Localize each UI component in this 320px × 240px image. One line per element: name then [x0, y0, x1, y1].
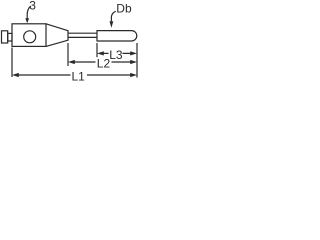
svg-text:L1: L1 — [72, 69, 86, 83]
svg-text:Db: Db — [116, 2, 132, 16]
svg-text:L3: L3 — [109, 48, 123, 62]
svg-text:L2: L2 — [97, 56, 111, 70]
svg-text:3: 3 — [29, 0, 36, 12]
